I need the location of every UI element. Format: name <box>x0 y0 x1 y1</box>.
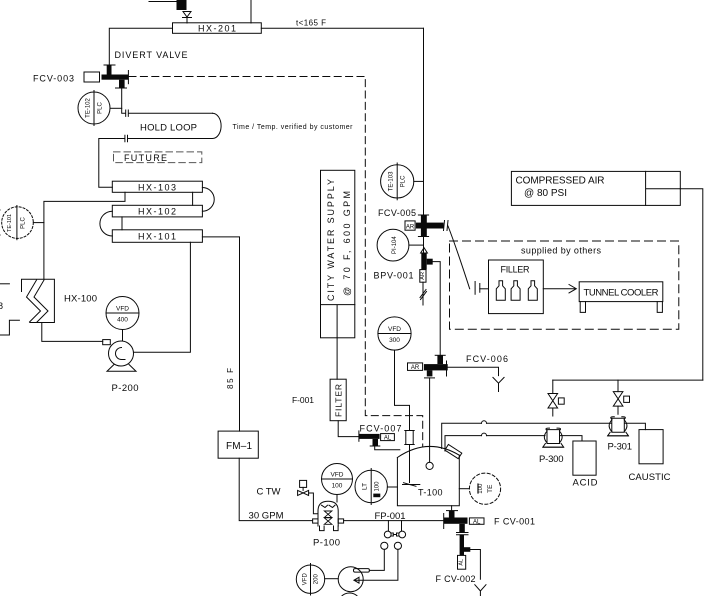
tag box AR of FCV-005 <box>405 221 415 230</box>
instrument bubble PLC (dotted) <box>2 207 34 239</box>
supplied by others dashed box <box>450 241 679 329</box>
wire offpage into HX-100 <box>0 283 9 285</box>
svg-text:AL: AL <box>384 436 392 442</box>
pipe HX-103 bottom to junction to HX-100 <box>44 192 125 279</box>
svg-text:P-300: P-300 <box>539 454 564 465</box>
air valve for P-301 <box>613 380 629 414</box>
air header to pump valves <box>553 379 703 381</box>
pipe divert valve down to hold loop <box>122 88 125 113</box>
label F CV-001 <box>494 517 535 527</box>
svg-text:HX-101: HX-101 <box>138 232 176 242</box>
svg-text:30 GPM: 30 GPM <box>249 511 284 522</box>
hold loop U-turn <box>213 113 222 138</box>
wire top feed to valve <box>149 1 177 3</box>
label FCV-005 <box>378 208 416 218</box>
union symbol on P-300 line <box>482 433 487 436</box>
svg-text:HX-102: HX-102 <box>138 207 176 217</box>
svg-text:HX-103: HX-103 <box>138 183 176 193</box>
svg-text:HX-201: HX-201 <box>198 24 236 34</box>
valve FCV-005 <box>416 215 444 237</box>
svg-text:85 F: 85 F <box>226 368 235 389</box>
bottle 1 <box>496 281 505 300</box>
svg-text:t<165 F: t<165 F <box>296 19 326 28</box>
label P-300 <box>539 454 564 465</box>
svg-text:ACID: ACID <box>573 478 598 489</box>
svg-text:FILTER: FILTER <box>334 384 344 417</box>
svg-text:FCV-005: FCV-005 <box>378 208 416 218</box>
label C TW <box>257 487 281 498</box>
svg-text:HX-100: HX-100 <box>64 294 97 305</box>
pipe HX-101 right to FM-1 drop <box>202 237 239 431</box>
pipe HX-103 to HX-102 vertical <box>192 192 194 205</box>
svg-text:F CV-001: F CV-001 <box>494 517 535 527</box>
coupling pair <box>384 531 405 538</box>
svg-text:HOLD LOOP: HOLD LOOP <box>140 123 197 134</box>
svg-text:100: 100 <box>478 483 484 494</box>
svg-text:CITY WATER SUPPLY: CITY WATER SUPPLY <box>326 179 336 301</box>
pipe BPV-001 vent with break <box>420 282 427 305</box>
svg-text:T-100: T-100 <box>418 487 443 497</box>
label 85 F rotated <box>226 368 235 389</box>
break symbol hold loop inlet <box>126 110 129 116</box>
svg-text:TE-103: TE-103 <box>389 171 395 191</box>
instrument bubble PI-104 <box>377 229 409 261</box>
svg-text:TE-102: TE-102 <box>86 98 92 118</box>
discharge P-301 to caustic tank <box>625 423 645 429</box>
svg-text:FCV-003: FCV-003 <box>33 74 74 84</box>
svg-text:BPV-001: BPV-001 <box>374 271 414 281</box>
svg-text:100: 100 <box>375 481 381 492</box>
wire TE-100 to tank <box>459 488 469 490</box>
label FCV-003 <box>33 74 74 84</box>
svg-text:100: 100 <box>332 483 343 490</box>
hose connection circles <box>381 542 402 549</box>
svg-text:PLC: PLC <box>21 216 27 228</box>
svg-text:P-100: P-100 <box>313 538 340 549</box>
svg-text:200: 200 <box>314 574 320 585</box>
drain funnel Y <box>493 377 504 391</box>
svg-text:@ 70 F, 600 GPM: @ 70 F, 600 GPM <box>342 191 352 296</box>
air hose curve to filler <box>448 226 470 289</box>
pump P-301 diaphragm <box>608 417 629 436</box>
pipe FCV-007 to tank dome <box>375 446 400 450</box>
svg-text:TUNNEL COOLER: TUNNEL COOLER <box>584 287 659 298</box>
svg-text:P-301: P-301 <box>608 442 633 453</box>
acid tank <box>573 441 596 475</box>
compressed air supply box <box>511 171 680 205</box>
pump P-100 rotary <box>313 501 344 530</box>
pump P-200 <box>103 340 136 372</box>
pipe tank to FCV-001 <box>451 506 453 511</box>
svg-text:300: 300 <box>389 337 400 344</box>
HX-100 coil zigzag <box>27 280 49 322</box>
bottle 3 <box>528 281 537 300</box>
svg-text:FCV-006: FCV-006 <box>466 354 508 364</box>
pipe hold loop to HX-103 <box>99 139 125 188</box>
tank T-100 <box>397 446 459 505</box>
wire offpage lower left <box>0 320 19 335</box>
tag box AL of FCV-001 <box>469 518 484 525</box>
svg-text:FILLER: FILLER <box>501 264 531 274</box>
wire VFD-100 to P-100 <box>336 495 338 503</box>
tank nozzle tilted <box>445 445 462 459</box>
label P-301 <box>608 442 633 453</box>
label FUTURE gray <box>124 153 168 163</box>
svg-text:supplied by others: supplied by others <box>521 246 602 256</box>
valve FCV-006 <box>424 355 448 378</box>
svg-text:C TW: C TW <box>257 487 281 498</box>
caustic tank <box>639 430 663 464</box>
wire compressed air to header <box>680 189 703 380</box>
instrument bubble VFD 400 <box>106 297 139 330</box>
heat exchanger HX-103 <box>112 181 202 192</box>
wire PI-104 to pipe <box>409 244 424 246</box>
pipe FCV-006 into tank dip tube <box>429 378 431 462</box>
instrument bubble LT-100 <box>355 469 387 505</box>
label 30 GPM <box>249 511 284 522</box>
heat exchanger HX-101 <box>112 230 202 243</box>
svg-text:VFD: VFD <box>388 326 401 333</box>
wire CTW valve to P-100 <box>309 493 318 514</box>
label FCV-007 <box>360 424 402 434</box>
valve FCV-001 <box>444 511 468 535</box>
filler box <box>489 260 544 314</box>
svg-text:VFD: VFD <box>331 472 344 479</box>
wire TE-102 to pipe <box>110 107 122 109</box>
svg-text:TE-101: TE-101 <box>7 214 13 232</box>
pipe HX-101 bottom to P-200 discharge <box>134 242 191 352</box>
label FCV-006 <box>466 354 508 364</box>
pump P-300 diaphragm <box>543 428 564 447</box>
heat exchanger HX-102 <box>112 205 202 217</box>
label F CV-002 <box>436 574 476 584</box>
svg-text:FP-001: FP-001 <box>375 511 406 522</box>
pipe main drop from HX-201 <box>423 28 425 215</box>
instrument bubble VFD 200 <box>296 564 324 596</box>
valve V-top (cut off at edge) <box>177 0 187 10</box>
svg-text:8: 8 <box>0 301 3 311</box>
svg-text:FUTURE: FUTURE <box>124 153 168 163</box>
valve FCV-007 <box>359 431 380 446</box>
svg-text:PLC: PLC <box>98 101 104 113</box>
pipe filter to FCV-007 <box>338 421 358 437</box>
future dashed box <box>114 152 202 163</box>
suction line tank to P-300 <box>445 436 545 451</box>
pipe FM-1 to main CIP line <box>239 458 312 520</box>
svg-text:AR: AR <box>411 365 420 371</box>
pump nozzle rect <box>354 569 370 573</box>
instrument bubble VFD 100 <box>322 464 353 495</box>
check valve into HX-201 <box>183 12 192 18</box>
agitator shaft and impeller <box>403 445 420 487</box>
hose coupling symbol at filler <box>475 282 480 295</box>
wire VFD-300 to agitator motor <box>395 350 410 430</box>
tag box AL of FCV-002 vertical <box>458 555 466 569</box>
svg-text:400: 400 <box>117 317 128 324</box>
air valve for P-300 <box>548 380 564 416</box>
wire into HX-201 top <box>186 17 188 23</box>
label supplied by others <box>521 246 602 256</box>
bottle 2 <box>511 281 520 300</box>
svg-text:AL: AL <box>459 559 465 566</box>
arrow filler to tunnel cooler <box>543 285 576 293</box>
pipe HX-100 bottom to P-200 suction <box>42 323 103 342</box>
valve FCV-003 divert 3-way <box>102 65 129 88</box>
actuator FCV-003 <box>84 72 100 82</box>
instrument bubble TE-102 / PLC <box>78 91 110 126</box>
wire coupling to filler <box>480 288 489 290</box>
main pipe P-100 to FCV-001 <box>344 520 444 522</box>
wire BPV-001 branch to FCV-006 <box>433 262 441 356</box>
CTW regulator square <box>300 480 307 490</box>
tunnel cooler box <box>579 282 663 313</box>
svg-text:PI-104: PI-104 <box>392 236 398 254</box>
label P-100 <box>313 538 340 549</box>
instrument bubble TE-103 / PLC <box>381 163 414 200</box>
label DIVERT VALVE <box>115 50 188 60</box>
valve FCV-002 drop <box>460 535 471 556</box>
break symbol hold loop return <box>125 135 128 141</box>
wire second top line into HX-201 <box>250 0 252 23</box>
label 8 offpage <box>0 301 3 311</box>
dip tube end circle <box>426 462 433 469</box>
check valve above BPV-001 <box>421 248 428 253</box>
svg-text:AR: AR <box>420 272 426 280</box>
svg-text:PLC: PLC <box>401 175 407 187</box>
pipe HX-102 to HX-101 vertical <box>121 217 123 230</box>
pipe hold loop top run <box>129 112 213 114</box>
svg-text:F-001: F-001 <box>292 395 314 405</box>
pipe hold loop return run <box>128 138 212 140</box>
svg-text:DIVERT VALVE: DIVERT VALVE <box>115 50 188 60</box>
valve BPV-001 <box>421 253 432 270</box>
svg-text:COMPRESSED AIR: COMPRESSED AIR <box>516 176 605 187</box>
svg-text:LT: LT <box>362 483 369 490</box>
label ACID <box>573 478 598 489</box>
wire TE-103 to pipe <box>414 180 424 182</box>
svg-text:FCV-007: FCV-007 <box>360 424 402 434</box>
wire HX-201 left to divert valve <box>109 28 172 64</box>
hose right to pump center <box>354 549 398 583</box>
svg-text:FM–1: FM–1 <box>226 441 252 452</box>
pipe arc HX-103 to HX-102 right side <box>202 188 214 212</box>
sample drop right <box>401 521 403 531</box>
svg-text:TE: TE <box>487 484 494 493</box>
pipe FCV-005 to check valve <box>423 237 425 254</box>
heat exchanger HX-100 shell <box>22 279 55 322</box>
wire PLC bubble to junction <box>33 222 44 224</box>
label FP-001 <box>375 511 406 522</box>
CTW valve bowtie <box>298 490 309 495</box>
svg-text:VFD: VFD <box>303 573 309 586</box>
instrument bubble TE-100 dashed <box>469 473 500 504</box>
heat exchanger HX-201 <box>173 23 262 34</box>
pipe city water to filter <box>336 338 338 379</box>
label HOLD LOOP <box>140 123 197 134</box>
city water supply box <box>321 170 355 337</box>
pump P-x circle <box>338 567 363 596</box>
wire HX-201 right to FCV-005 drop <box>261 27 423 29</box>
flow meter FM-1 <box>218 431 258 458</box>
dashed signal wire from divert valve to tank <box>129 77 423 447</box>
label P-200 <box>112 383 139 394</box>
label t<165 F <box>296 19 326 28</box>
svg-text:F CV-002: F CV-002 <box>436 574 476 584</box>
union symbol on P-301 line <box>482 421 487 423</box>
tag box AR of BPV-001 vertical <box>420 270 426 283</box>
label CAUSTIC <box>629 472 671 483</box>
break symbol FCV-005 right <box>444 221 449 231</box>
filter F-001 <box>330 379 346 421</box>
label BPV-001 <box>374 271 414 281</box>
svg-text:AR: AR <box>406 224 415 230</box>
wire VFD-200 to pump <box>325 578 339 580</box>
suction line tank to P-301 <box>442 423 611 448</box>
label F-001 <box>292 395 314 405</box>
tag box AR of FCV-006 <box>408 363 423 371</box>
TE-100 text <box>478 483 494 494</box>
agitator motor on tank <box>405 431 414 445</box>
wire FCV-006 to drain <box>448 367 499 375</box>
sample drop left <box>387 521 389 531</box>
label HX-100 <box>64 294 97 305</box>
svg-text:AL: AL <box>473 519 481 525</box>
discharge P-300 to acid tank <box>560 436 582 441</box>
svg-text:Time / Temp. verified by custo: Time / Temp. verified by customer <box>233 124 354 131</box>
tag box AL of FCV-007 <box>381 434 395 442</box>
svg-text:@ 80 PSI: @ 80 PSI <box>524 188 567 199</box>
svg-text:CAUSTIC: CAUSTIC <box>629 472 671 483</box>
note Time/Temp verified by customer <box>233 124 354 131</box>
pipe arc HX-102 to HX-101 left side <box>100 211 112 236</box>
divider and text of PLC bubble <box>7 206 27 240</box>
wire VFD-400 to P-200 <box>122 330 124 342</box>
wire FCV-002 to drain <box>470 550 480 580</box>
svg-text:VFD: VFD <box>116 306 129 313</box>
drain funnel Y bottom <box>475 585 486 596</box>
instrument bubble VFD 300 <box>378 317 411 350</box>
hose left to pump nozzle <box>369 549 384 570</box>
svg-text:P-200: P-200 <box>112 383 139 394</box>
wire LT-100 to tank <box>387 486 397 488</box>
